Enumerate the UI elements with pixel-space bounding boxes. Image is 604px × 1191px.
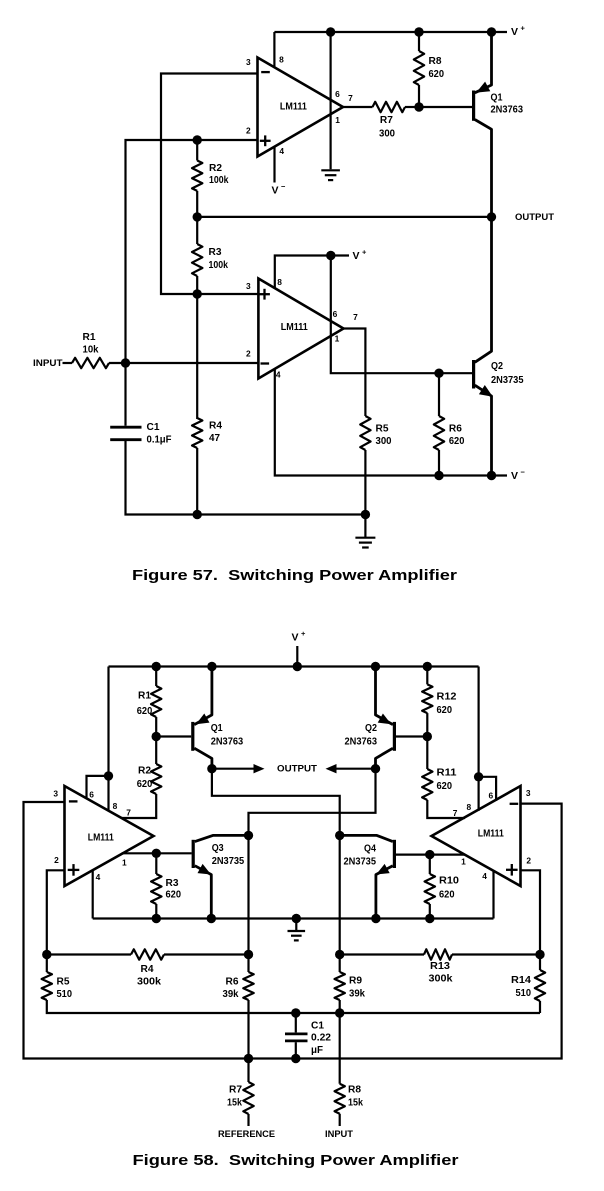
svg-text:V: V bbox=[511, 26, 518, 38]
svg-text:6: 6 bbox=[488, 791, 493, 801]
svg-text:510: 510 bbox=[57, 989, 73, 1000]
svg-text:300k: 300k bbox=[429, 974, 453, 985]
svg-text:LM111: LM111 bbox=[478, 829, 504, 840]
svg-text:620: 620 bbox=[166, 890, 182, 901]
svg-text:C1: C1 bbox=[147, 422, 160, 433]
svg-text:μF: μF bbox=[311, 1045, 323, 1056]
svg-text:V: V bbox=[272, 185, 279, 197]
svg-text:OUTPUT: OUTPUT bbox=[277, 763, 317, 774]
svg-text:0.22: 0.22 bbox=[311, 1033, 331, 1044]
svg-text:−: − bbox=[281, 182, 286, 191]
svg-text:39k: 39k bbox=[223, 989, 239, 1000]
svg-text:R9: R9 bbox=[349, 976, 362, 987]
svg-text:R1: R1 bbox=[83, 332, 96, 343]
svg-text:V: V bbox=[292, 632, 299, 644]
svg-text:3: 3 bbox=[246, 281, 251, 291]
svg-text:Q2: Q2 bbox=[365, 723, 377, 734]
svg-text:620: 620 bbox=[137, 779, 153, 790]
svg-text:39k: 39k bbox=[349, 989, 365, 1000]
svg-text:7: 7 bbox=[453, 808, 458, 818]
svg-text:R7: R7 bbox=[229, 1085, 242, 1096]
svg-text:R12: R12 bbox=[437, 692, 457, 703]
svg-text:620: 620 bbox=[137, 706, 153, 717]
svg-text:Figure 58. Switching Power Am: Figure 58. Switching Power Amplifier bbox=[133, 1153, 459, 1169]
svg-text:8: 8 bbox=[277, 277, 282, 287]
svg-text:R4: R4 bbox=[209, 421, 222, 432]
svg-text:2: 2 bbox=[526, 855, 531, 865]
svg-text:2N3735: 2N3735 bbox=[212, 856, 245, 867]
svg-text:1: 1 bbox=[461, 857, 466, 867]
svg-text:620: 620 bbox=[437, 781, 453, 792]
svg-text:R13: R13 bbox=[430, 961, 450, 972]
svg-text:+: + bbox=[362, 247, 367, 256]
svg-text:2N3763: 2N3763 bbox=[345, 737, 378, 748]
svg-text:R6: R6 bbox=[449, 424, 462, 435]
svg-text:4: 4 bbox=[96, 872, 101, 882]
svg-text:4: 4 bbox=[276, 370, 281, 380]
svg-text:OUTPUT: OUTPUT bbox=[515, 212, 554, 223]
svg-text:15k: 15k bbox=[227, 1098, 242, 1109]
svg-text:R8: R8 bbox=[429, 56, 442, 67]
svg-text:4: 4 bbox=[279, 146, 284, 156]
svg-text:Q2: Q2 bbox=[491, 361, 503, 372]
svg-text:+: + bbox=[301, 629, 306, 638]
svg-text:620: 620 bbox=[437, 705, 453, 716]
svg-text:REFERENCE: REFERENCE bbox=[218, 1129, 275, 1140]
svg-text:6: 6 bbox=[335, 89, 340, 99]
svg-text:V: V bbox=[353, 250, 360, 262]
svg-text:Q1: Q1 bbox=[211, 723, 223, 734]
svg-text:10k: 10k bbox=[83, 345, 99, 356]
svg-text:1: 1 bbox=[335, 334, 340, 344]
svg-text:7: 7 bbox=[348, 93, 353, 103]
svg-text:R2: R2 bbox=[209, 163, 222, 174]
svg-text:8: 8 bbox=[113, 801, 118, 811]
svg-text:R14: R14 bbox=[511, 975, 531, 986]
svg-text:300k: 300k bbox=[137, 977, 161, 988]
svg-text:2N3763: 2N3763 bbox=[491, 104, 524, 115]
svg-text:8: 8 bbox=[279, 55, 284, 65]
svg-text:R1: R1 bbox=[138, 691, 151, 702]
svg-text:0.1μF: 0.1μF bbox=[147, 435, 172, 446]
svg-text:300: 300 bbox=[379, 128, 395, 139]
svg-text:Figure 57. Switching Power Am: Figure 57. Switching Power Amplifier bbox=[132, 568, 457, 584]
svg-text:3: 3 bbox=[53, 789, 58, 799]
svg-text:1: 1 bbox=[122, 858, 127, 868]
svg-text:3: 3 bbox=[526, 788, 531, 798]
svg-text:LM111: LM111 bbox=[281, 322, 308, 333]
svg-text:2: 2 bbox=[246, 126, 251, 136]
svg-text:+: + bbox=[521, 23, 526, 32]
svg-text:R3: R3 bbox=[209, 247, 222, 258]
svg-text:INPUT: INPUT bbox=[325, 1129, 353, 1140]
svg-text:2N3735: 2N3735 bbox=[491, 375, 524, 386]
svg-text:R6: R6 bbox=[226, 977, 239, 988]
svg-text:2: 2 bbox=[246, 349, 251, 359]
svg-text:620: 620 bbox=[439, 890, 455, 901]
svg-text:LM111: LM111 bbox=[88, 832, 114, 843]
svg-text:R8: R8 bbox=[348, 1085, 361, 1096]
svg-text:2N3735: 2N3735 bbox=[344, 857, 377, 868]
svg-text:6: 6 bbox=[89, 790, 94, 800]
svg-text:R3: R3 bbox=[166, 878, 179, 889]
svg-text:R10: R10 bbox=[439, 876, 459, 887]
svg-text:3: 3 bbox=[246, 57, 251, 67]
svg-text:8: 8 bbox=[466, 802, 471, 812]
svg-text:7: 7 bbox=[126, 808, 131, 818]
svg-text:−: − bbox=[521, 467, 526, 476]
svg-text:15k: 15k bbox=[348, 1098, 363, 1109]
svg-text:Q3: Q3 bbox=[212, 843, 224, 854]
svg-text:2: 2 bbox=[54, 855, 59, 865]
svg-text:300: 300 bbox=[376, 436, 392, 447]
svg-text:Q4: Q4 bbox=[364, 844, 376, 855]
svg-text:6: 6 bbox=[333, 309, 338, 319]
svg-text:1: 1 bbox=[335, 115, 340, 125]
svg-text:4: 4 bbox=[482, 871, 487, 881]
svg-text:Q1: Q1 bbox=[491, 92, 503, 103]
svg-text:7: 7 bbox=[353, 312, 358, 322]
svg-text:47: 47 bbox=[209, 433, 220, 444]
svg-text:2N3763: 2N3763 bbox=[211, 737, 244, 748]
svg-text:100k: 100k bbox=[209, 260, 229, 271]
svg-text:100k: 100k bbox=[209, 175, 229, 186]
svg-text:R4: R4 bbox=[141, 964, 154, 975]
svg-text:620: 620 bbox=[449, 436, 465, 447]
svg-text:620: 620 bbox=[429, 69, 445, 80]
svg-text:R2: R2 bbox=[138, 766, 151, 777]
svg-text:R11: R11 bbox=[437, 768, 457, 779]
svg-text:INPUT: INPUT bbox=[33, 358, 63, 369]
svg-text:R7: R7 bbox=[380, 115, 393, 126]
svg-text:R5: R5 bbox=[57, 977, 70, 988]
svg-text:510: 510 bbox=[516, 988, 532, 999]
svg-text:C1: C1 bbox=[311, 1020, 324, 1031]
svg-text:LM111: LM111 bbox=[280, 101, 307, 112]
svg-text:R5: R5 bbox=[376, 424, 389, 435]
svg-text:V: V bbox=[511, 470, 518, 482]
